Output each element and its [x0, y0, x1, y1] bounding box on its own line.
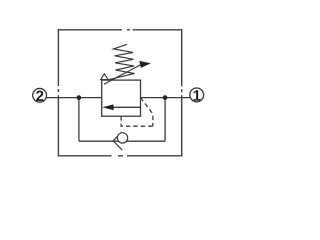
adjustment arrow shaft through spring: [104, 64, 142, 84]
wire: right riser up to node B: [164, 98, 166, 142]
enclosure boundary left edge (chain line): [57, 29, 59, 156]
valve flow arrow (head + shaft): [102, 104, 140, 110]
check valve seat: [113, 132, 122, 150]
enclosure boundary right edge (chain line): [181, 29, 183, 156]
relief valve body box: [102, 80, 141, 116]
pilot line (dashed) from valve bottom across to corner: [121, 116, 153, 126]
enclosure boundary top edge (chain line): [58, 29, 183, 31]
wire: bottom bypass line through check valve: [79, 140, 165, 142]
port 2 label: [36, 91, 43, 101]
port 2 circle: [33, 88, 47, 102]
adjustment arrow head: [139, 61, 151, 68]
wire: valve outlet to port 1: [141, 97, 190, 99]
check valve ball: [117, 133, 127, 143]
wire: left branch down from node A: [78, 98, 80, 142]
pilot line (dashed) diagonal from port-1 corner down: [141, 98, 153, 127]
spring (adjustable) above valve: [107, 44, 135, 80]
pilot stage triangle on valve top: [101, 74, 109, 80]
enclosure boundary bottom edge (chain line): [58, 155, 183, 157]
port 1 label: [194, 90, 201, 100]
junction node B: [163, 95, 168, 100]
junction node A: [77, 95, 82, 100]
wire: port 2 to valve inlet: [46, 97, 101, 99]
port 1 circle: [190, 88, 204, 102]
